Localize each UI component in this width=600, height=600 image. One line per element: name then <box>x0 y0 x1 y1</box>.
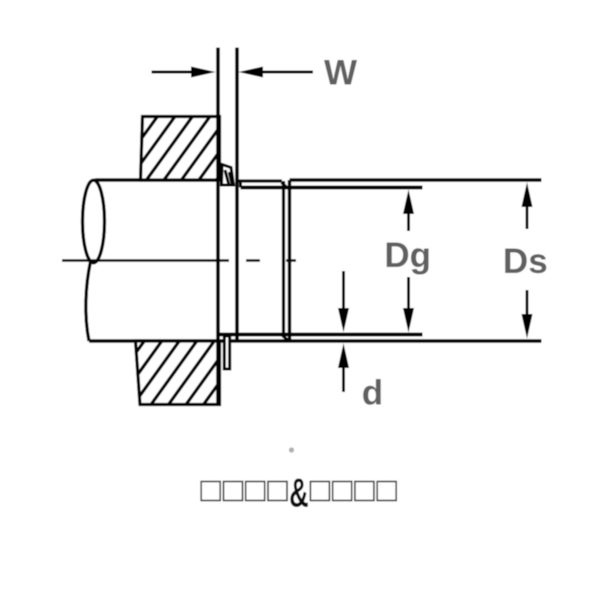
housing block top <box>141 117 220 181</box>
Dg bottom line <box>218 333 422 337</box>
step line outer <box>288 180 291 341</box>
Dg up arrow stem <box>407 213 410 231</box>
d down arrowhead <box>338 308 349 332</box>
Ds down arrow stem <box>526 290 529 315</box>
bottom chamfer <box>282 335 289 342</box>
retaining ring right edge <box>235 48 239 341</box>
shaft lower silhouette arc <box>86 262 91 342</box>
center line <box>62 259 296 262</box>
W dimension right line <box>261 71 313 74</box>
hatch top block <box>109 112 266 184</box>
Ds up arrowhead <box>522 182 533 207</box>
top chamfer <box>282 183 289 189</box>
svg-text:Ds: Ds <box>503 242 548 281</box>
shaft end ellipse <box>83 180 105 263</box>
W dimension left line <box>152 71 194 74</box>
groove corner stub <box>239 181 242 188</box>
W right arrowhead <box>239 67 264 78</box>
shaft bottom line <box>89 339 542 342</box>
svg-text:d: d <box>362 374 383 413</box>
ring cross-section wedge <box>222 165 234 186</box>
shaft top line right <box>290 178 542 182</box>
caption tofu boxes and ampersand <box>201 482 396 501</box>
Ds up arrow stem <box>526 206 529 229</box>
Dg top line <box>241 186 423 190</box>
d down arrow stem <box>342 271 345 309</box>
svg-text:W: W <box>324 54 357 93</box>
Dg up arrowhead <box>403 190 414 215</box>
svg-text:Dg: Dg <box>384 236 431 275</box>
retaining ring left edge <box>216 48 220 405</box>
W left arrowhead <box>191 67 216 78</box>
groove section top edge <box>237 179 282 182</box>
ring lower tab <box>224 336 229 369</box>
d up arrowhead <box>338 343 349 368</box>
d up arrow stem <box>342 367 345 392</box>
Dg down arrowhead <box>403 308 414 333</box>
stray gray dot <box>289 447 294 452</box>
svg-text:&: & <box>289 471 309 516</box>
hatch bottom block <box>96 337 252 408</box>
step line inner <box>282 181 285 335</box>
housing block bottom <box>136 341 220 405</box>
wedge hatch <box>225 170 232 185</box>
Dg down arrow stem <box>407 277 410 309</box>
Ds down arrowhead <box>522 314 533 339</box>
shaft top line <box>95 178 219 181</box>
